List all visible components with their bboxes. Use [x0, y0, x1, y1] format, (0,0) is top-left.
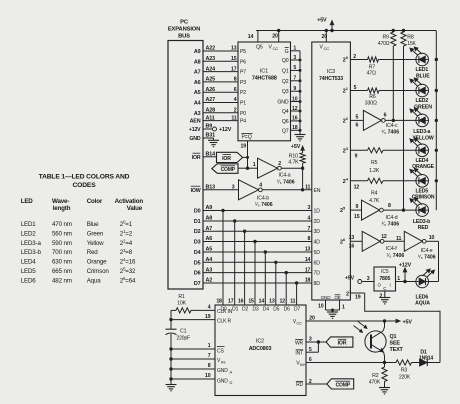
ground (IC5 pin 2): [384, 291, 386, 298]
svg-text:A27: A27: [206, 97, 216, 103]
svg-text:A7: A7: [194, 70, 201, 76]
flag IOR (read strobe): [326, 337, 353, 347]
svg-text:B14: B14: [206, 151, 216, 157]
svg-text:OE: OE: [334, 295, 340, 300]
svg-text:1: 1: [397, 276, 400, 282]
junction + drop to IC2 pin 18: [221, 209, 224, 212]
svg-text:47Ω: 47Ω: [367, 70, 376, 76]
svg-text:A22: A22: [206, 46, 216, 52]
svg-text:LED4: LED4: [415, 158, 428, 164]
svg-text:Q3: Q3: [282, 89, 289, 95]
svg-text:3: 3: [308, 205, 311, 211]
svg-text:A2: A2: [206, 278, 213, 284]
wire IC4-a input node: [248, 167, 258, 169]
svg-text:4D: 4D: [314, 240, 321, 246]
svg-text:Color: Color: [87, 198, 103, 205]
svg-text:P3: P3: [240, 80, 246, 86]
svg-text:LED3-a: LED3-a: [413, 129, 430, 135]
svg-text:4.7K: 4.7K: [288, 160, 299, 166]
svg-text:IC4-b: IC4-b: [257, 195, 269, 201]
node vertical / capacitor C1 220pF: [170, 310, 172, 329]
+5V power rail: [256, 30, 436, 32]
svg-text:AEN: AEN: [190, 119, 201, 125]
svg-text:IC5: IC5: [381, 269, 389, 275]
wires CS / VIN- / GNDA / GNDD to ground: [171, 348, 215, 350]
ground (IC1 Q bus): [295, 134, 306, 136]
svg-text:A5: A5: [206, 247, 213, 253]
LED cathode rail: [435, 31, 437, 211]
wire A22: bus A9 to IC1 P5: [203, 50, 238, 52]
svg-text:D1: D1: [232, 306, 238, 312]
svg-text:GND: GND: [321, 295, 332, 300]
svg-text:10: 10: [292, 96, 298, 102]
flag COMP: [212, 164, 238, 174]
svg-text:470Ω: 470Ω: [378, 41, 390, 47]
wire data D1 (bus A8) to IC2/IC3: [203, 220, 312, 222]
svg-text:IN+: IN+: [300, 362, 307, 367]
svg-text:P5: P5: [240, 49, 246, 55]
svg-text:SEE: SEE: [390, 341, 401, 347]
svg-text:IOR: IOR: [222, 156, 231, 162]
svg-text:A8: A8: [194, 59, 201, 65]
svg-text:D4: D4: [263, 306, 269, 312]
svg-text:10: 10: [429, 235, 435, 241]
svg-text:+5V: +5V: [291, 144, 301, 150]
svg-text:16: 16: [349, 243, 355, 249]
wire IC4-e out down to LED6 cathode: [426, 240, 438, 242]
LED3-a YELLOW: [416, 114, 429, 127]
svg-text:7D: 7D: [314, 271, 321, 277]
svg-text:R4: R4: [371, 190, 378, 196]
svg-text:12: 12: [292, 106, 298, 112]
svg-text:74HCT533: 74HCT533: [319, 76, 343, 82]
svg-text:D7: D7: [294, 306, 300, 312]
LED4 ORANGE: [416, 144, 429, 157]
svg-text:15: 15: [231, 56, 237, 62]
svg-text:14: 14: [305, 257, 311, 263]
svg-text:Crimson: Crimson: [87, 268, 110, 275]
svg-text:7: 7: [293, 76, 296, 82]
svg-text:2: 2: [353, 54, 356, 60]
svg-text:IN-: IN-: [221, 360, 227, 365]
svg-text:A4: A4: [206, 257, 213, 263]
svg-text:Yellow: Yellow: [87, 240, 104, 247]
svg-text:482 nm: 482 nm: [52, 277, 72, 284]
svg-text:16: 16: [238, 299, 244, 305]
svg-text:Q6: Q6: [282, 119, 289, 125]
svg-text:18: 18: [292, 125, 298, 131]
svg-text:GND: GND: [277, 100, 288, 106]
svg-text:A24: A24: [206, 66, 216, 72]
wire data D5 (bus A4) to IC2/IC3: [203, 261, 312, 263]
svg-text:23=8: 23=8: [120, 248, 133, 256]
svg-text:8D: 8D: [314, 281, 321, 287]
svg-text:20: 20: [322, 34, 328, 40]
svg-text:D6: D6: [194, 271, 201, 277]
svg-text:Q1: Q1: [390, 334, 397, 340]
svg-text:I: I: [390, 283, 391, 288]
svg-text:14: 14: [248, 34, 254, 40]
svg-text:16: 16: [292, 116, 298, 122]
svg-text:D3: D3: [194, 240, 201, 246]
svg-text:A6: A6: [206, 236, 213, 242]
svg-text:IOW: IOW: [191, 188, 201, 194]
svg-text:12: 12: [280, 299, 286, 305]
svg-text:COMP: COMP: [221, 167, 236, 173]
svg-text:630 nm: 630 nm: [52, 259, 72, 266]
svg-text:A7: A7: [206, 226, 213, 232]
svg-text:P2: P2: [240, 90, 246, 96]
svg-text:4: 4: [308, 216, 311, 222]
svg-text:220pF: 220pF: [177, 336, 191, 342]
svg-text:AQUA: AQUA: [415, 301, 430, 307]
svg-text:IC4-e: IC4-e: [421, 248, 433, 254]
svg-text:PC: PC: [180, 20, 189, 26]
LED2 GREEN: [416, 84, 429, 97]
svg-text:A23: A23: [206, 56, 216, 62]
flag IOR: [217, 152, 243, 162]
svg-text:11: 11: [396, 236, 401, 242]
LED3-b RED: [416, 204, 429, 217]
ground (R2): [379, 387, 390, 389]
wire CLK R to node: [171, 319, 215, 321]
svg-text:D5: D5: [273, 306, 279, 312]
resistor R2 470K: [384, 363, 386, 368]
svg-text:A6: A6: [194, 80, 201, 86]
svg-text:A26: A26: [206, 87, 216, 93]
svg-text:LED2: LED2: [415, 98, 428, 104]
svg-text:¹⁄₆ 7406: ¹⁄₆ 7406: [381, 130, 399, 136]
svg-text:1: 1: [208, 343, 211, 349]
svg-text:8: 8: [234, 77, 237, 83]
svg-text:LED1: LED1: [21, 221, 37, 228]
svg-text:2: 2: [278, 161, 281, 167]
svg-text:P0: P0: [240, 111, 246, 117]
svg-text:LED5: LED5: [21, 268, 37, 275]
wire VCC to +5V: [306, 320, 396, 322]
wired-OR down to EN line: [302, 168, 304, 190]
svg-text:IOR: IOR: [192, 155, 201, 161]
svg-text:6D: 6D: [314, 260, 321, 266]
svg-text:length: length: [53, 205, 71, 212]
svg-text:+5V: +5V: [317, 18, 327, 24]
wire IOR B14: [203, 156, 217, 158]
wire IOW B13: [203, 189, 239, 191]
svg-text:R6: R6: [369, 94, 376, 100]
svg-text:LED5: LED5: [415, 189, 428, 195]
svg-text:LED3-b: LED3-b: [21, 249, 42, 256]
junction + drop to IC2 pin 15: [253, 240, 256, 243]
svg-text:IC1: IC1: [260, 69, 268, 75]
svg-text:R10: R10: [289, 153, 298, 159]
svg-text:20: 20: [272, 34, 278, 40]
svg-text:9: 9: [356, 204, 359, 210]
svg-text:1D: 1D: [314, 209, 321, 215]
svg-text:12: 12: [381, 234, 387, 240]
svg-text:18: 18: [305, 278, 311, 284]
svg-text:BLUE: BLUE: [416, 73, 430, 79]
svg-text:15K: 15K: [407, 41, 416, 47]
svg-text:IC4-f: IC4-f: [386, 246, 397, 252]
svg-text:11: 11: [231, 115, 236, 121]
svg-text:1: 1: [253, 162, 256, 168]
svg-text:CLK IN: CLK IN: [217, 309, 233, 315]
svg-text:Orange: Orange: [87, 259, 107, 266]
svg-text:2: 2: [380, 294, 383, 300]
svg-text:9: 9: [355, 154, 358, 160]
svg-text:13: 13: [269, 299, 275, 305]
svg-text:D1: D1: [194, 219, 201, 225]
node 2^6 / inverter IC4-f / inverter IC4-e / LED6 drive: [350, 240, 362, 242]
svg-text:7805: 7805: [379, 276, 390, 282]
+5V arrow label: [331, 24, 333, 31]
svg-text:A9: A9: [206, 205, 213, 211]
svg-text:P7: P7: [240, 70, 246, 76]
svg-text:Q7: Q7: [282, 128, 289, 134]
svg-text:24=16: 24=16: [120, 257, 136, 265]
svg-text:A28: A28: [206, 108, 216, 114]
svg-text:5D: 5D: [314, 250, 321, 256]
svg-text:8: 8: [388, 203, 391, 209]
svg-text:Q0: Q0: [282, 58, 289, 64]
LED1 BLUE: [416, 53, 429, 66]
svg-text:P6: P6: [240, 59, 246, 65]
svg-text:+12V: +12V: [189, 127, 201, 133]
svg-text:7: 7: [308, 226, 311, 232]
ground (IC3): [327, 311, 338, 313]
svg-text:R3: R3: [401, 367, 408, 373]
junction + drop to IC2 pin 11: [295, 281, 298, 284]
svg-text:3: 3: [293, 55, 296, 61]
svg-text:LED3-a: LED3-a: [21, 240, 42, 247]
svg-text:+5V: +5V: [345, 275, 355, 281]
svg-text:IC2: IC2: [256, 339, 264, 345]
svg-text:590 nm: 590 nm: [52, 240, 72, 247]
light arrows into Q1: [354, 326, 363, 333]
inverter IC4-b: [239, 180, 259, 200]
inverter IC4-a: [258, 158, 278, 178]
svg-text:G: G: [285, 49, 289, 55]
svg-text:11: 11: [290, 299, 295, 305]
svg-text:B13: B13: [206, 184, 216, 190]
svg-text:12: 12: [354, 184, 360, 190]
svg-text:A9: A9: [194, 49, 201, 55]
svg-text:IOR: IOR: [338, 340, 347, 346]
svg-text:ADC0803: ADC0803: [249, 346, 272, 352]
svg-text:10: 10: [318, 304, 324, 310]
wire data D3 (bus A6) to IC2/IC3: [203, 241, 312, 243]
svg-text:B31: B31: [206, 133, 216, 139]
svg-text:8: 8: [208, 363, 211, 369]
resistor R8 15K pull-up: [402, 29, 405, 32]
svg-text:20: 20: [309, 315, 315, 321]
flag COMP (comparator out): [327, 379, 354, 389]
svg-text:R1: R1: [178, 294, 185, 300]
svg-text:5: 5: [293, 65, 296, 71]
svg-text:D6: D6: [284, 306, 290, 312]
svg-text:10K: 10K: [177, 300, 186, 306]
svg-text:¹⁄₆ 7406: ¹⁄₆ 7406: [418, 255, 436, 261]
svg-text:220K: 220K: [399, 374, 411, 380]
svg-text:R5: R5: [371, 160, 378, 166]
svg-text:17: 17: [305, 267, 311, 273]
svg-text:¹⁄₆ 7406: ¹⁄₆ 7406: [386, 253, 404, 259]
svg-text:IC3: IC3: [327, 69, 335, 75]
svg-text:20=1: 20=1: [120, 220, 133, 228]
svg-text:EXPANSION: EXPANSION: [168, 27, 200, 33]
svg-text:330Ω: 330Ω: [365, 101, 377, 107]
svg-text:15: 15: [248, 299, 254, 305]
node 2^4 / resistor R4 / LED5: [350, 180, 367, 182]
svg-text:CC: CC: [324, 46, 330, 51]
svg-text:2D: 2D: [314, 219, 321, 225]
svg-text:560 nm: 560 nm: [52, 230, 72, 237]
+5V output terminal: [362, 281, 374, 283]
svg-text:700 nm: 700 nm: [52, 249, 72, 256]
svg-text:17: 17: [231, 66, 237, 72]
svg-text:4: 4: [208, 305, 211, 311]
junction + drop to IC2 pin 14: [264, 250, 267, 253]
wire data D0 (bus A9) to IC2/IC3: [203, 210, 312, 212]
svg-text:D: D: [230, 380, 233, 385]
svg-text:22=4: 22=4: [120, 238, 133, 246]
svg-text:A8: A8: [206, 216, 213, 222]
svg-text:A3: A3: [194, 111, 201, 117]
svg-text:13: 13: [305, 247, 311, 253]
wire A11: bus AEN to IC1 P4: [203, 120, 238, 122]
svg-text:6: 6: [384, 112, 387, 118]
svg-text:LED4: LED4: [21, 259, 37, 266]
diode D1: [420, 359, 428, 366]
svg-text:21=2: 21=2: [120, 229, 133, 237]
svg-text:EN: EN: [314, 188, 321, 194]
svg-text:470 nm: 470 nm: [52, 221, 72, 228]
svg-text:Value: Value: [127, 205, 143, 212]
svg-text:LED6: LED6: [21, 277, 37, 284]
LED5 CRIMSON: [416, 175, 429, 188]
svg-text:COMP: COMP: [336, 382, 351, 388]
svg-text:15: 15: [354, 214, 360, 220]
IC1 Q inputs tied to ground: [291, 50, 301, 52]
svg-text:D2: D2: [194, 229, 201, 235]
+12V input node: [396, 281, 417, 283]
node 2^3 / resistor R5 / LED4: [350, 149, 367, 151]
svg-text:IC4-a: IC4-a: [279, 173, 291, 179]
svg-text:19: 19: [241, 143, 247, 149]
svg-text:LED: LED: [21, 198, 34, 205]
svg-text:3: 3: [232, 184, 235, 190]
svg-text:CODES: CODES: [72, 182, 96, 189]
svg-text:IC4-d: IC4-d: [386, 215, 398, 221]
svg-text:D0: D0: [194, 209, 201, 215]
svg-text:7: 7: [208, 353, 211, 359]
node 2^5 / inverter IC4-d / LED3-b: [350, 209, 361, 211]
svg-text:TABLE 1—LED COLORS AND: TABLE 1—LED COLORS AND: [39, 174, 130, 181]
junction + drop to IC2 pin 16: [243, 230, 246, 233]
wire WR/INT to IOR flag: [306, 341, 326, 343]
svg-text:RD: RD: [296, 382, 303, 388]
svg-text:C1: C1: [180, 328, 187, 334]
svg-text:GND: GND: [217, 378, 228, 384]
svg-text:1.2K: 1.2K: [369, 168, 380, 174]
svg-text:LED2: LED2: [21, 230, 37, 237]
wire data D7 (bus A2) to IC2/IC3: [203, 282, 312, 284]
wire RD to COMP flag: [306, 383, 327, 385]
wire IC1 pin19 down to IC4-a input node: [247, 141, 249, 168]
op IC2 ADC0803: [215, 305, 306, 396]
svg-text:4.7K: 4.7K: [369, 198, 380, 204]
svg-text:CS: CS: [217, 348, 224, 354]
svg-text:10: 10: [205, 373, 211, 379]
resistor R10 4.7K pull-up to +5V: [301, 146, 305, 150]
svg-text:Green: Green: [87, 230, 104, 237]
svg-text:C: C: [383, 286, 386, 291]
svg-text:19: 19: [205, 314, 211, 320]
svg-text:R8: R8: [407, 35, 414, 41]
svg-text:GND: GND: [217, 368, 228, 374]
IC1 pin14 Q5 and pin20 VCC to +5V rail: [257, 31, 259, 43]
svg-text:D7: D7: [194, 281, 201, 287]
svg-text:¹⁄₆ 7406: ¹⁄₆ 7406: [255, 202, 273, 208]
svg-text:Red: Red: [87, 249, 99, 256]
svg-text:A3: A3: [206, 267, 213, 273]
svg-text:Q2: Q2: [282, 79, 289, 85]
svg-text:D2: D2: [242, 306, 248, 312]
node 2^2 / inverter IC4-c / LED3-a: [350, 119, 363, 121]
svg-text:13: 13: [231, 46, 237, 52]
svg-text:Q4: Q4: [282, 109, 289, 115]
svg-text:19: 19: [355, 295, 361, 301]
svg-text:TEXT: TEXT: [390, 347, 404, 353]
svg-text:LED6: LED6: [415, 294, 428, 300]
svg-text:5: 5: [356, 114, 359, 120]
svg-text:14: 14: [259, 299, 265, 305]
wire data D4 (bus A5) to IC2/IC3: [203, 251, 312, 253]
wire A24: bus A7 to IC1 P7: [203, 71, 238, 73]
svg-text:LED3-b: LED3-b: [413, 219, 430, 225]
svg-text:Blue: Blue: [87, 221, 99, 228]
svg-text:D3: D3: [252, 306, 258, 312]
svg-text:3D: 3D: [314, 229, 321, 235]
svg-text:A11: A11: [206, 115, 215, 121]
svg-text:2: 2: [234, 108, 237, 114]
svg-text:CC: CC: [273, 46, 279, 51]
ground B31: [203, 137, 214, 139]
wire A27: bus A4 to IC1 P1: [203, 102, 238, 104]
svg-text:8: 8: [308, 236, 311, 242]
svg-text:6: 6: [356, 123, 359, 129]
junction + drop to IC2 pin 13: [274, 261, 277, 264]
node 2^0 / resistor R7 / LED1: [350, 59, 367, 61]
svg-text:5: 5: [354, 85, 357, 91]
svg-text:LED1: LED1: [415, 67, 428, 73]
svg-text:1N914: 1N914: [419, 355, 433, 361]
wire to IC3 EN pin 11: [262, 189, 312, 191]
svg-text:A25: A25: [206, 77, 216, 83]
svg-text:9: 9: [293, 86, 296, 92]
svg-text:13: 13: [349, 235, 355, 241]
svg-text:4: 4: [259, 183, 262, 189]
svg-text:4: 4: [234, 97, 237, 103]
LED6 AQUA: [416, 275, 429, 288]
svg-text:¹⁄₆ 7406: ¹⁄₆ 7406: [381, 221, 399, 227]
svg-text:B9: B9: [206, 124, 213, 130]
svg-text:WR: WR: [295, 340, 304, 346]
wire A25: bus A6 to IC1 P3: [203, 81, 238, 83]
svg-text:Q1: Q1: [282, 68, 289, 74]
transistor Q1 phototransistor: [365, 331, 386, 352]
wire A26: bus A5 to IC1 P2: [203, 91, 238, 93]
